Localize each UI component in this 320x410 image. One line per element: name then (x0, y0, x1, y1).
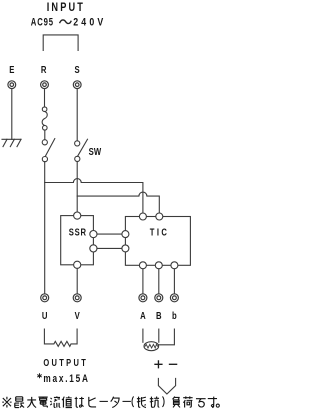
glyph sai (15, 397, 24, 408)
glyph maru (216, 404, 219, 407)
sensor RTD body (144, 342, 159, 351)
glyph de (196, 399, 206, 407)
svg-text:U: U (42, 310, 48, 321)
wire E down (11, 89, 13, 140)
ground (2, 139, 21, 146)
terminal A (139, 294, 147, 302)
svg-text:TIC: TIC (150, 226, 170, 237)
glyph hi (89, 397, 96, 407)
glyph ryuu (50, 396, 60, 407)
glyph tei (137, 397, 146, 408)
tilde wave (60, 20, 71, 24)
svg-text:A: A (140, 310, 146, 321)
svg-text:OUTPUT: OUTPUT (43, 357, 88, 368)
TIC pin bottom B (155, 262, 162, 269)
SSR box U1 (61, 216, 94, 265)
sensor RTD leads (143, 329, 175, 345)
label - (170, 363, 177, 365)
heater load resistor (44, 329, 77, 346)
glyph paren-l (132, 396, 134, 407)
glyph dai (27, 397, 36, 408)
TIC pin top 1 (139, 213, 146, 220)
TIC pin bottom A (139, 262, 146, 269)
terminal U (41, 294, 49, 302)
wire (44, 130, 46, 140)
TIC box U2 (125, 217, 190, 266)
svg-text:B: B (156, 310, 162, 321)
wire TIC to B (158, 269, 160, 294)
input bracket (43, 35, 78, 51)
caption Japanese note (2, 396, 219, 407)
wire S down to SSR (76, 162, 78, 212)
TIC pin bottom b (171, 262, 178, 269)
terminal b (170, 294, 178, 302)
fuse F on R (42, 107, 47, 130)
chevron arrow (158, 378, 175, 394)
glyph ta (111, 397, 119, 408)
glyph den (38, 397, 47, 408)
SSR pin bottom (74, 261, 81, 268)
wire SSR-TIC 1 (97, 233, 122, 235)
terminal V (73, 294, 81, 302)
svg-text:SW: SW (89, 146, 102, 157)
wire R branch with hop over S (45, 179, 143, 213)
TIC pin left 2 (122, 245, 129, 252)
svg-text:SSR: SSR (69, 227, 87, 238)
SSR pin right 2 (90, 245, 97, 252)
terminal S (73, 81, 81, 89)
TIC pin left 1 (122, 231, 129, 238)
wire TIC to b (173, 269, 175, 294)
svg-text:S: S (75, 64, 80, 75)
svg-text:AC95: AC95 (31, 16, 54, 29)
TIC pin top 2 (156, 213, 163, 220)
glyph su (208, 397, 217, 408)
terminal R (41, 81, 49, 89)
SSR pin top (74, 212, 81, 219)
wire R to U (44, 162, 46, 294)
glyph fu (173, 397, 180, 408)
glyph chi (62, 396, 72, 407)
svg-text:INPUT: INPUT (47, 2, 85, 14)
wire R down (44, 89, 46, 107)
terminal B (155, 294, 163, 302)
switch on R (42, 139, 55, 162)
glyph bar2 (123, 400, 131, 402)
wire SSR-TIC 2 (97, 247, 122, 249)
terminal E (8, 81, 16, 89)
glyph kome (2, 397, 11, 408)
glyph bar1 (100, 400, 108, 402)
glyph ha (75, 397, 84, 407)
wire TIC to A (142, 269, 144, 294)
label *max.15A (38, 374, 42, 378)
svg-text:b: b (172, 310, 177, 321)
switch SW on S (75, 139, 88, 161)
svg-text:V: V (75, 310, 80, 321)
svg-text:max.15A: max.15A (43, 373, 89, 385)
wire SSR to V (76, 268, 78, 293)
wire S branch with hop (77, 192, 159, 213)
wire S down (76, 89, 78, 141)
svg-text:E: E (9, 64, 14, 75)
svg-text:R: R (41, 64, 47, 75)
label + (155, 361, 162, 368)
svg-text:240V: 240V (73, 17, 106, 29)
glyph paren-r (163, 396, 165, 407)
glyph kou (150, 397, 159, 408)
glyph ka (183, 396, 192, 407)
SSR pin right 1 (90, 231, 97, 238)
